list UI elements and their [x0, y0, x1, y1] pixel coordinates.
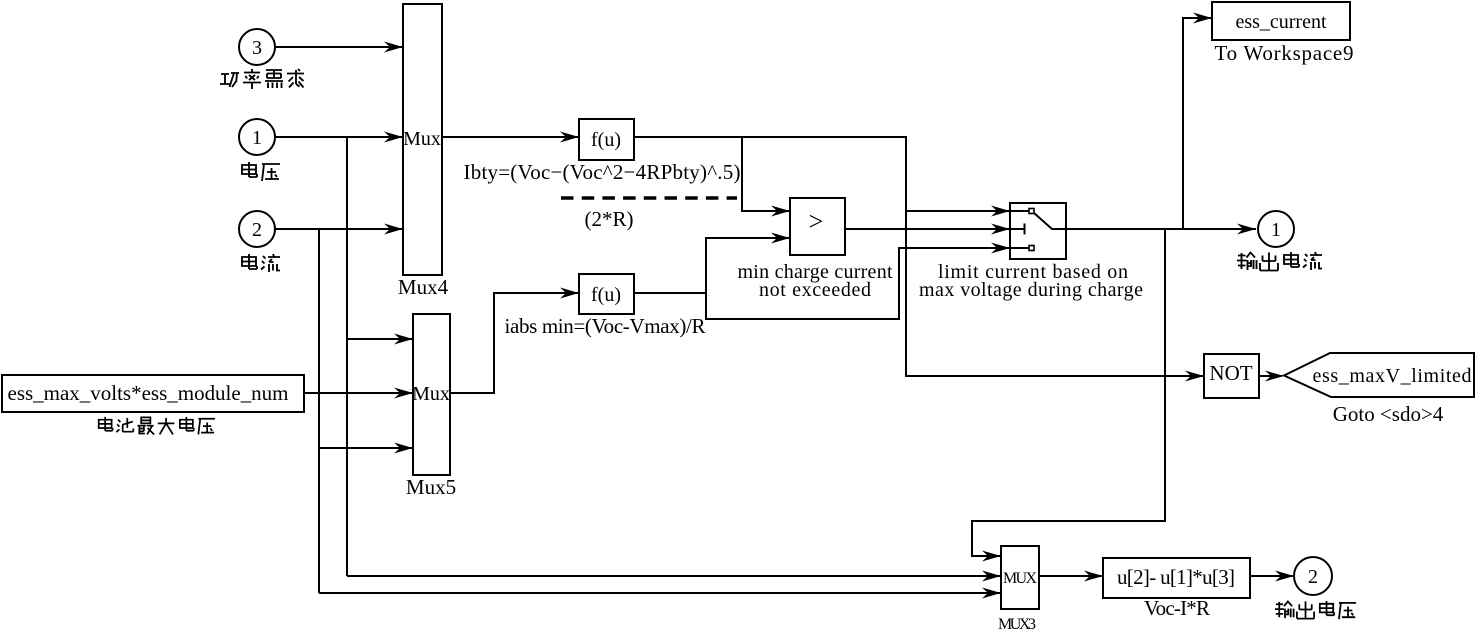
wire f(u)2 out junction [634, 292, 706, 294]
svg-text:Goto <sdo>4: Goto <sdo>4 [1333, 402, 1444, 426]
arrowheads [384, 42, 403, 53]
goto tag ess_maxV_limited [1284, 353, 1474, 397]
svg-text:u[2]- u[1]*u[3]: u[2]- u[1]*u[3] [1117, 565, 1235, 589]
wire MUX3 out to fcn box [1039, 575, 1103, 577]
switch block [1010, 203, 1066, 259]
svg-text:max voltage during charge: max voltage during charge [919, 279, 1143, 301]
svg-text:>: > [809, 207, 824, 236]
label 输出电压 (output voltage) [1275, 601, 1356, 619]
wire Mux4 out to f(u)1 [442, 136, 579, 138]
wire up to comparator in2 [706, 238, 790, 293]
inport 3 circle [239, 29, 275, 65]
svg-text:(2*R): (2*R) [585, 207, 634, 231]
outport 2 circle [1294, 557, 1332, 595]
fcn block f(u) Ibty [579, 119, 634, 160]
wire up to ess_current [1183, 18, 1212, 229]
mux block MUX3 [1001, 546, 1039, 609]
fcn block u[2]-u[1]*u[3] [1103, 558, 1250, 598]
wire Mux5 out to f(u)2 [450, 293, 579, 393]
label 功率需求 (power demand) [220, 69, 304, 89]
wire current to MUX3 in3 [319, 592, 1001, 594]
wire down to MUX3 in1 [972, 229, 1165, 556]
svg-text:MUX3: MUX3 [998, 616, 1036, 631]
label 输出电流 (output current) [1237, 252, 1322, 271]
wire voltage to Mux5 in1 [347, 338, 413, 340]
wire current branch down [318, 229, 320, 593]
NOT logic block [1204, 354, 1259, 398]
wire branch to comparator in1 [742, 137, 790, 211]
svg-text:1: 1 [1271, 219, 1281, 241]
svg-text:Voc-I*R: Voc-I*R [1144, 596, 1210, 620]
svg-text:1: 1 [252, 127, 262, 149]
svg-text:Ibty=(Voc−(Voc^2−4RPbty)^.5): Ibty=(Voc−(Voc^2−4RPbty)^.5) [464, 160, 741, 184]
inport 2 circle [239, 211, 275, 247]
svg-text:MUX: MUX [1003, 570, 1037, 587]
wire down around to switch in3 [706, 248, 1010, 319]
relational operator block [790, 198, 845, 255]
wire branch to switch in1 [906, 210, 1010, 212]
wire NOT out to goto tag [1259, 375, 1282, 377]
svg-text:3: 3 [252, 37, 262, 59]
mux block Mux4 [403, 4, 442, 275]
wire voltage branch down [346, 137, 348, 576]
wire voltage to MUX3 in2 [347, 575, 1001, 577]
svg-text:2: 2 [252, 219, 262, 241]
label 电流 (current) [242, 254, 280, 272]
inport 1 circle [239, 119, 275, 155]
svg-text:Mux5: Mux5 [406, 475, 456, 499]
svg-text:2: 2 [1308, 566, 1318, 588]
wire port1 to Mux4 [275, 136, 403, 138]
outport 1 circle [1258, 211, 1294, 247]
svg-text:iabs min=(Voc-Vmax)/R: iabs min=(Voc-Vmax)/R [505, 314, 706, 338]
wire f(u)1 out across and down to NOT [634, 137, 1204, 376]
svg-text:Mux: Mux [403, 128, 441, 150]
svg-text:f(u): f(u) [591, 284, 621, 306]
svg-text:NOT: NOT [1209, 361, 1252, 385]
label 电压 (voltage) [242, 162, 280, 181]
svg-text:Mux: Mux [412, 383, 450, 405]
svg-text:Mux4: Mux4 [398, 275, 449, 299]
wire ess_max box to Mux5 in2 [304, 392, 413, 394]
svg-text:f(u): f(u) [591, 129, 621, 151]
label 电池最大电压 (battery max voltage) [99, 417, 215, 435]
wire comparator out to switch in2 [845, 228, 1010, 230]
svg-text:To Workspace9: To Workspace9 [1215, 41, 1354, 65]
wire current to Mux5 in3 [319, 447, 413, 449]
fcn block f(u) iabs [579, 274, 634, 314]
svg-text:ess_maxV_limited: ess_maxV_limited [1313, 365, 1472, 387]
wire switch out to outport1 [1066, 228, 1256, 230]
svg-text:ess_max_volts*ess_module_num: ess_max_volts*ess_module_num [8, 381, 289, 405]
svg-text:not exceeded: not exceeded [759, 279, 871, 301]
switch interior [1010, 211, 1066, 248]
dashed fraction bar [561, 196, 737, 199]
wire port3 to Mux4 [275, 46, 403, 48]
mux block Mux5 [413, 314, 450, 475]
svg-text:ess_current: ess_current [1235, 11, 1327, 33]
to-workspace block ess_current [1212, 2, 1350, 40]
constant block ess_max_volts [2, 375, 304, 412]
wire port2 to Mux4 [275, 228, 403, 230]
wire fcn box out to outport2 [1250, 575, 1294, 577]
